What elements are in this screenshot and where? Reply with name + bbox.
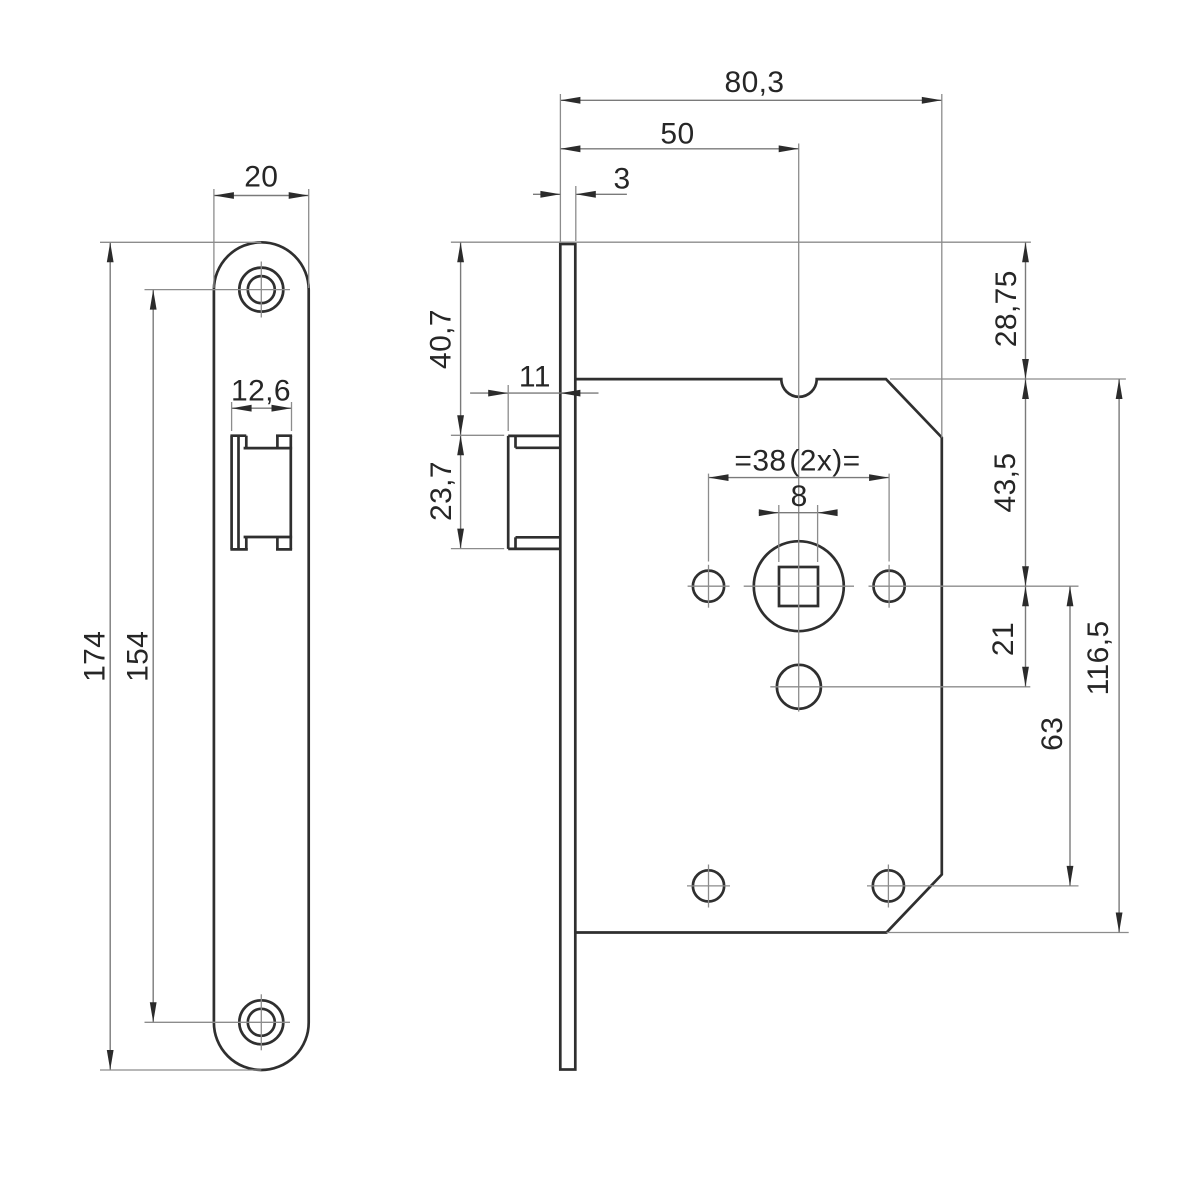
dimension 80,3 xyxy=(560,66,941,438)
dimension 50 xyxy=(560,118,798,153)
bottom left fixing hole xyxy=(687,865,730,908)
dimension 174 xyxy=(79,242,262,1070)
extension line at lower hole level xyxy=(770,686,1030,688)
lower hole xyxy=(777,665,821,709)
svg-text:3: 3 xyxy=(613,163,630,196)
latch bolt (side view) xyxy=(508,436,560,549)
dimension 116,5 xyxy=(1082,379,1123,933)
dimension 40,7 xyxy=(425,242,465,435)
dimension 20 xyxy=(214,161,309,289)
svg-text:8: 8 xyxy=(791,480,808,513)
left fixing hole xyxy=(688,565,730,608)
faceplate outline (front view stadium) xyxy=(214,242,309,1070)
dimension 11 xyxy=(470,361,598,432)
latch cutout (front view) xyxy=(230,436,292,550)
svg-text:43,5: 43,5 xyxy=(989,453,1022,513)
top shared extension line xyxy=(451,241,1031,243)
svg-text:174: 174 xyxy=(79,631,112,682)
dimension 43,5 xyxy=(989,379,1029,586)
svg-text:80,3: 80,3 xyxy=(725,66,785,99)
right fixing hole xyxy=(874,565,905,608)
svg-text:21: 21 xyxy=(987,622,1020,656)
svg-text:28,75: 28,75 xyxy=(990,270,1023,347)
bottom right fixing hole xyxy=(873,865,904,908)
dimension =38(2x)= xyxy=(709,445,890,562)
dimension 8 xyxy=(759,480,838,562)
spindle square hole xyxy=(779,567,818,606)
dimension 12,6 xyxy=(231,375,292,432)
svg-text:12,6: 12,6 xyxy=(231,375,291,408)
bottom screw hole xyxy=(239,994,283,1050)
svg-text:=38 (2x)=: =38 (2x)= xyxy=(734,445,860,478)
svg-text:20: 20 xyxy=(244,161,278,194)
lock case outline (side view) xyxy=(575,379,942,932)
dimension 28,75 xyxy=(990,242,1029,379)
svg-text:154: 154 xyxy=(122,631,155,682)
spindle centerline xyxy=(798,144,800,712)
dimension 23,7 xyxy=(425,435,504,548)
svg-text:23,7: 23,7 xyxy=(425,461,458,521)
case bottom extension line xyxy=(887,932,1129,934)
faceplate bar (side view) xyxy=(560,244,575,1070)
dimension 154 xyxy=(122,290,291,1023)
svg-text:63: 63 xyxy=(1036,717,1069,751)
svg-text:11: 11 xyxy=(519,361,551,394)
dimension 63 xyxy=(1036,586,1073,886)
dimension 3 xyxy=(533,163,631,242)
dimension 21 xyxy=(987,586,1029,687)
case top right extension line xyxy=(890,378,1126,380)
top screw hole xyxy=(239,262,283,318)
svg-text:40,7: 40,7 xyxy=(425,309,458,369)
extension line right of mid holes xyxy=(869,585,1079,587)
spindle horizontal crosshair xyxy=(744,585,854,587)
svg-text:116,5: 116,5 xyxy=(1082,620,1115,695)
extension line at bottom holes level xyxy=(867,885,1079,887)
spindle follower circle xyxy=(754,541,844,631)
svg-text:50: 50 xyxy=(660,118,694,151)
